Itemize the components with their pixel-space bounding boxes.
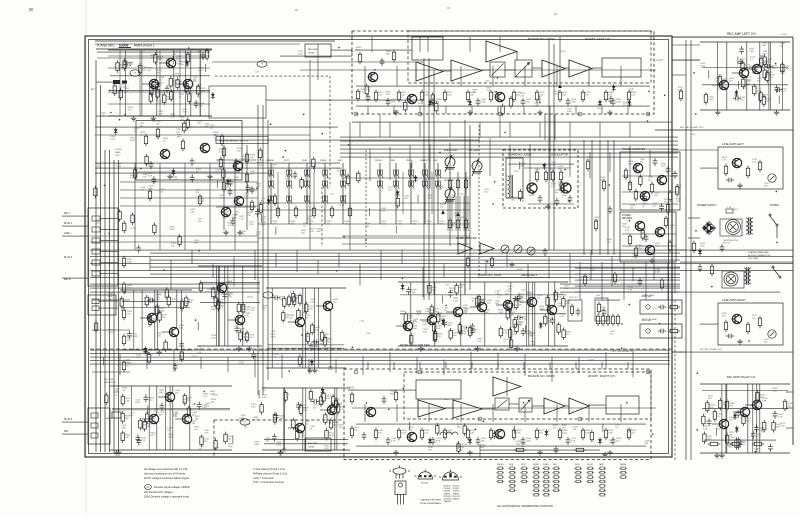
center vertical bus [423, 58, 425, 300]
resistor R248 [260, 402, 263, 415]
upper bus drop 4 [409, 146, 411, 186]
svg-text:+15V: +15V [485, 81, 490, 83]
rec amp left vertical wire 3 [770, 42, 772, 110]
mic input stage right Q3 collector wire [189, 386, 191, 415]
svg-text:2SA733: 2SA733 [444, 492, 451, 495]
switch ladder TAPE [599, 467, 606, 496]
mic input stage right Q1 base wire [142, 418, 149, 420]
dashed pocket left edge [213, 420, 215, 457]
op-amp meter amp A5 [458, 243, 472, 254]
top-left grid wire 1 [108, 55, 210, 57]
svg-text:3.3K: 3.3K [516, 433, 521, 435]
board 63016 amplifier vertical wire 4 [532, 282, 534, 346]
resistor R259 [666, 202, 669, 215]
playback amp left horizontal wire 1 [122, 306, 190, 308]
driver-supply wire 1 [575, 267, 680, 269]
transistor Q dolby left in [368, 72, 378, 81]
mid-left mesh drop 5 [234, 163, 236, 250]
resistor R119 [499, 326, 502, 339]
top-left grid drop 2 [139, 50, 141, 116]
board 63016 amplifier Q7 base wire [540, 309, 547, 311]
resistor R83 [299, 403, 302, 416]
record amplifier right vertical wire 3 [305, 388, 307, 450]
pin 5 [498, 112, 502, 116]
line driver left Q2 base wire [316, 305, 323, 307]
lower bus line 5 [90, 363, 670, 365]
ground [418, 346, 424, 351]
svg-text:1.8K: 1.8K [101, 115, 106, 117]
lower bus drop 12 [416, 357, 418, 373]
resistor R223 [433, 331, 436, 344]
switch S1b [268, 181, 274, 189]
resistor R12 [558, 90, 561, 102]
resistor R194 [150, 84, 153, 97]
transistor Q8 [166, 58, 176, 67]
svg-text:10K: 10K [125, 437, 129, 439]
svg-text:1.8K: 1.8K [459, 449, 464, 451]
resistor R108 [449, 328, 452, 341]
svg-text:68K: 68K [386, 54, 390, 56]
svg-text:0.047: 0.047 [676, 187, 682, 189]
line driver left horizontal wire 2 [268, 344, 344, 346]
bus drop 17 [485, 260, 487, 274]
op-amp A1 dolby right [418, 400, 445, 417]
playback amp left vertical wire 1 [181, 290, 183, 350]
switch S10b [435, 181, 441, 189]
plug pin 6 [92, 271, 100, 276]
svg-text:REC: REC [554, 94, 559, 96]
svg-text:2.2K: 2.2K [519, 297, 524, 299]
resistor R79 [336, 402, 339, 415]
resistor R op 3 [594, 219, 597, 231]
capacitor C4 [431, 98, 436, 106]
svg-text:10K: 10K [171, 246, 175, 248]
ground [156, 350, 162, 355]
resistor R mesh 1 [148, 189, 151, 201]
capacitor C41 [459, 328, 464, 336]
playback amp stage box [136, 121, 242, 181]
lower bus drop 15 [497, 353, 499, 370]
svg-text:100μ: 100μ [148, 188, 153, 190]
board 63023 Dolby right channel (outer dashed) [344, 369, 651, 460]
signal wire to center top [212, 61, 424, 63]
switch ladder DOLBY [587, 467, 594, 483]
dolby right mid wire [352, 407, 656, 409]
diode D3 [598, 99, 602, 106]
svg-text:2SC458: 2SC458 [421, 483, 428, 485]
svg-text:PHONO: PHONO [375, 160, 383, 162]
resistor R116 [432, 321, 435, 334]
R and mic amplifier left Q3 emitter wire [190, 88, 192, 116]
R and mic amplifier left Q3 collector wire [190, 50, 192, 80]
switch S5a [340, 170, 346, 178]
transistor Q39 [503, 300, 513, 309]
mains switch [772, 266, 781, 278]
record amplifier right top rail [262, 387, 350, 389]
rec amp left vertical wire 2 [716, 42, 718, 110]
record level right box [305, 438, 331, 451]
mains wire [680, 261, 793, 263]
svg-text:10K: 10K [160, 94, 164, 96]
ground [715, 110, 721, 115]
resistor R168 [627, 428, 630, 440]
diode D24 [321, 387, 325, 394]
resistor R139 [742, 414, 745, 427]
stub wire [197, 322, 199, 330]
svg-text:8.2K: 8.2K [678, 90, 683, 92]
svg-text:MIC / LINE: MIC / LINE [104, 379, 115, 381]
board 63016 amplifier Q4 collector wire [484, 282, 486, 303]
transistor Q45 [752, 400, 762, 409]
svg-text:15K: 15K [391, 102, 395, 104]
resistor R128 [458, 322, 461, 335]
playb box bottom wire [138, 171, 240, 173]
dolby left signal wire 5 [565, 67, 569, 69]
circled T test point 2 [257, 61, 267, 67]
svg-text:4.7K: 4.7K [722, 160, 727, 162]
osc-pwr vertical wire 4 [607, 140, 609, 255]
resistor R198 [113, 84, 116, 97]
equalizer stage left top rail [198, 265, 262, 267]
mic amp right Q1 collector wire [726, 384, 728, 420]
VU meter C [527, 247, 535, 255]
mains wire 2 [680, 291, 780, 293]
svg-text:(0.6V): (0.6V) [517, 269, 523, 271]
left bus wire 5 [113, 160, 115, 452]
mic input stage right Q1 emitter wire [156, 423, 158, 450]
capacitor C86 [234, 158, 239, 166]
stub wire [457, 441, 459, 449]
capacitor C10 [765, 64, 773, 69]
resistor R206 [365, 84, 368, 97]
svg-text:4.7K: 4.7K [250, 310, 255, 312]
svg-text:8.2K: 8.2K [386, 94, 391, 96]
lower bus drop 4 [200, 357, 202, 369]
dolby left drop 4 [445, 106, 447, 114]
upper bus drop 14 [609, 152, 611, 171]
line out wire 2 [99, 307, 118, 309]
resistor R hp 1 [222, 146, 225, 158]
circled T test point 4 [240, 419, 250, 425]
svg-text:1.8K: 1.8K [196, 52, 201, 54]
svg-text:POWER: POWER [770, 205, 779, 207]
record amplifier right horizontal wire 1 [264, 438, 348, 440]
line driver left Q2 collector wire [330, 288, 332, 302]
wire across right 352 [672, 351, 793, 353]
resistor R left col 1 [122, 256, 125, 268]
svg-text:POWER: POWER [622, 215, 631, 217]
capacitor C pwr 1 [653, 158, 658, 166]
resistor R op 1 [586, 159, 589, 171]
svg-text:120K: 120K [549, 172, 554, 174]
svg-text:AMPLIFIER 1: AMPLIFIER 1 [521, 273, 538, 277]
frame stub 352 [672, 351, 686, 353]
dolby right block drop 8 [588, 404, 590, 422]
svg-text:5.6K: 5.6K [241, 308, 246, 310]
bus drop 1 [149, 257, 151, 271]
equalizer stage left Q1 collector wire [224, 266, 226, 284]
svg-text:5.6K: 5.6K [628, 290, 633, 292]
svg-text:10K: 10K [245, 316, 249, 318]
top link wire 2 [300, 69, 352, 71]
svg-text:5.6K: 5.6K [423, 324, 428, 326]
ground [236, 346, 242, 351]
dolby right top link 2 [393, 362, 395, 369]
svg-text:REWIND: REWIND [266, 160, 275, 162]
resistor R59 [292, 291, 295, 304]
capacitor C42 [406, 287, 411, 295]
frame-lineamp stub [672, 149, 718, 151]
resistor R229 [515, 322, 518, 335]
center vertical bus 3 [433, 70, 435, 295]
top rail drop x428 [427, 37, 429, 52]
capacitor C bottom 1 [554, 446, 559, 454]
diode D17 [414, 175, 418, 182]
resistor R hp 3 [245, 172, 248, 184]
resistor R11 [535, 90, 538, 102]
svg-text:+15V: +15V [691, 134, 696, 136]
svg-text:1.8K: 1.8K [749, 51, 754, 53]
diode D19 [441, 318, 445, 325]
resistor R213 [178, 234, 181, 247]
oscillator top wire [508, 163, 574, 165]
upper bus line 6 [340, 156, 678, 158]
svg-text:15K: 15K [526, 102, 530, 104]
svg-text:DIN: DIN [64, 431, 68, 433]
stub wire [172, 56, 174, 64]
resistor R mesh 2 [198, 194, 201, 206]
top-left grid wire 2 [108, 67, 210, 69]
resistor R82 [331, 402, 334, 415]
resistor R231 [120, 296, 123, 309]
resistor R125 [508, 301, 511, 314]
svg-text:3.3K: 3.3K [773, 391, 778, 393]
mic input jack left [113, 80, 127, 84]
driver-supply drop 1 [579, 262, 581, 300]
resistor R250 [292, 418, 295, 431]
ground [649, 258, 655, 263]
dolby right block drop 9 [620, 404, 622, 422]
resistor R56 [214, 295, 217, 308]
resistor R dolby in 2 [392, 50, 395, 62]
center vertical bus 4 [464, 120, 466, 295]
switch S2c [286, 196, 292, 204]
dolby left input block [412, 37, 443, 60]
resistor R265 [560, 181, 563, 194]
switch S4b [322, 181, 328, 189]
lower bus drop 8 [308, 359, 310, 373]
dolby left block drop 1 [364, 66, 366, 86]
upper bus line 4 [340, 148, 678, 150]
board 63016 amplifier Q2 base wire [420, 319, 427, 321]
svg-text:15K: 15K [365, 225, 369, 227]
ground [393, 110, 399, 115]
svg-text:10K: 10K [519, 325, 523, 327]
top-left grid wire 4 [108, 103, 210, 105]
resistor R202 [205, 48, 208, 61]
svg-text:4.7K: 4.7K [530, 344, 535, 346]
diode D7 [468, 437, 472, 444]
upper bus drop 8 [489, 138, 491, 176]
resistor R64 [311, 323, 314, 336]
svg-text:120K: 120K [722, 81, 727, 83]
lower bus drop 1 [119, 354, 121, 376]
svg-text:5.6K: 5.6K [237, 150, 242, 152]
resistor R10 [512, 90, 515, 102]
ground [278, 450, 284, 455]
capacitor C75 [470, 327, 475, 335]
equalizer stage left Q2 emitter wire [242, 324, 244, 346]
transistor Q drv 3 [645, 245, 655, 254]
chain row wire y178 [342, 177, 470, 179]
dolby left drop 2 [393, 106, 395, 114]
transistor Q40 [527, 297, 537, 306]
diode D25 [734, 90, 738, 97]
capacitor C18 [147, 298, 155, 303]
resistor R158 [397, 428, 400, 440]
svg-text:2SA1015: 2SA1015 [444, 500, 452, 503]
resistor R line right 2 [746, 322, 749, 334]
svg-text:HEAD: HEAD [115, 151, 121, 154]
stub wire [258, 390, 260, 398]
resistor R227 [410, 333, 413, 346]
capacitor C29 [311, 399, 319, 404]
external wire plug 3 [62, 421, 88, 423]
power amp internal wire 3 [622, 203, 678, 205]
capacitor C66 [165, 85, 170, 93]
capacitor C71 [152, 176, 157, 184]
svg-text:1.8K: 1.8K [239, 218, 244, 220]
svg-text:8.2K: 8.2K [746, 420, 751, 422]
driver-supply drop 2 [601, 262, 603, 300]
dolby right block drop 7 [556, 404, 558, 422]
mic input stage right vertical wire 2 [165, 386, 167, 450]
ground [307, 368, 313, 373]
stub wire [217, 180, 219, 188]
resistor R38 [116, 60, 119, 73]
capacitor C pa x1 [666, 166, 671, 174]
resistor R239 [94, 321, 97, 334]
svg-text:15K: 15K [313, 407, 317, 409]
svg-text:WITH: WITH [575, 464, 580, 466]
switch column wire 9b [431, 172, 433, 214]
svg-text:METER AMPLIFIER: METER AMPLIFIER [456, 237, 477, 240]
transistor Q dolby right 3 [495, 429, 505, 438]
resistor R220 [300, 177, 303, 190]
record amplifier right Q1 base wire [288, 427, 295, 429]
resistor R225 [546, 295, 549, 308]
svg-text:120K: 120K [121, 427, 126, 429]
resistor R ds 2 [613, 272, 616, 284]
signal arrow [441, 210, 445, 214]
ground [144, 350, 150, 355]
top-left bottom rail [96, 115, 212, 117]
switch column wire 3 [306, 163, 308, 224]
mic amp right bottom rail [700, 452, 790, 454]
resistor R pd x2 [664, 216, 667, 228]
resistor R228 [455, 283, 458, 296]
mic input wire [96, 81, 113, 83]
central bus line 2 [150, 252, 680, 254]
rec amp left Q2 base wire [732, 72, 739, 74]
line out pin 1 [92, 299, 99, 304]
top-left grid drop 3 [159, 50, 161, 116]
svg-text:10K: 10K [609, 442, 613, 444]
board 63016 underline [478, 277, 550, 279]
capacitor C pb 2 [190, 158, 195, 166]
top rail drop x372 [371, 37, 373, 52]
bias wire [596, 299, 620, 301]
dolby right top tri drop [506, 377, 508, 396]
R and mic amplifier left bottom rail [108, 115, 212, 117]
diode D20 [539, 322, 543, 329]
resistor R bottom 2 [574, 448, 586, 451]
upper bus line 3 [340, 144, 678, 146]
resistor R199 [149, 91, 152, 104]
svg-text:10K: 10K [253, 356, 257, 358]
resistor R267 [457, 441, 460, 454]
svg-text:+15V: +15V [359, 321, 364, 323]
board 63016 amplifier top rail [398, 281, 568, 283]
capacitor C94 [659, 203, 664, 211]
dolby-left to bus drop 9 [599, 122, 601, 137]
dolby left drop 6 [497, 106, 499, 114]
svg-text:0.047: 0.047 [756, 436, 762, 438]
resistor R65 [323, 335, 326, 348]
svg-text:PLUG 3: PLUG 3 [64, 419, 73, 421]
mic input stage right bottom rail [110, 449, 232, 451]
svg-text:MIC R: MIC R [106, 418, 113, 420]
switch column wire 8 [410, 163, 412, 224]
capacitor C56 [476, 437, 481, 445]
bus drop 20 [548, 257, 550, 279]
shield dash horizontal [215, 75, 330, 77]
pin 7 [578, 112, 582, 116]
bus drop 18 [506, 253, 508, 267]
dolby left block drop 7 [556, 66, 558, 86]
bus drop 6 [254, 250, 256, 280]
switch row right drop 5 [463, 196, 465, 231]
upper bus drop 10 [529, 144, 531, 182]
stub wire [738, 81, 740, 89]
scan streak left [85, 0, 87, 515]
switch row right drop 4 [459, 196, 461, 231]
ground [737, 339, 743, 344]
resistor R122 [430, 304, 433, 317]
svg-text:100K: 100K [328, 369, 333, 371]
svg-text:0.8V: 0.8V [200, 56, 205, 58]
mid-left vertical bus 3 [267, 120, 269, 380]
svg-text:2.2K: 2.2K [219, 198, 224, 200]
resistor R146 [725, 433, 728, 446]
svg-text:3.3K: 3.3K [423, 331, 428, 333]
external wire mic L [62, 215, 88, 217]
mic amp right Q3 emitter wire [759, 409, 761, 453]
resistor R bias 2 [601, 314, 604, 326]
svg-text:(0.6V): (0.6V) [247, 297, 253, 299]
transistor Q7 [732, 158, 742, 167]
resistor R207 [404, 100, 407, 113]
right col vertical upper 2 [690, 40, 692, 130]
equalizer stage left bottom rail [198, 345, 262, 347]
main schematic frame inner [89, 40, 669, 454]
switch column wire 6 [379, 163, 381, 224]
svg-text:10K: 10K [157, 336, 161, 338]
resistor R19 [759, 56, 762, 69]
svg-text:10K: 10K [484, 192, 488, 194]
transistor Q20 [165, 392, 175, 401]
dolby left mid wire [352, 69, 656, 71]
